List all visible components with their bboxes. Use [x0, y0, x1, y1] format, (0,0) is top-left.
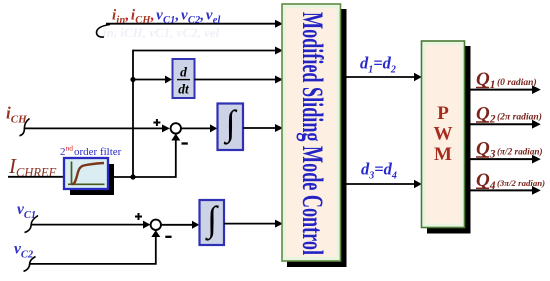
- wire: Q3 output: [468, 158, 532, 160]
- block integrator 1: [218, 103, 244, 150]
- block PWM: [422, 41, 471, 234]
- wire: upper branch to MSMC (y=50): [133, 50, 275, 52]
- svg-text:W: W: [434, 124, 453, 145]
- svg-text:d: d: [180, 65, 187, 80]
- wire: d3=d4 from MSMC to PWM: [347, 183, 415, 185]
- wire: Q1 output: [468, 89, 532, 91]
- svg-text:M: M: [434, 144, 452, 165]
- svg-text:d1=d2: d1=d2: [360, 54, 396, 76]
- summing junction 1: [153, 119, 187, 144]
- wire: integrator 1 output to MSMC: [243, 127, 275, 129]
- wire: i_CH into summing junction 1: [20, 119, 30, 136]
- wire: d/dt output to MSMC: [195, 79, 276, 81]
- wire: filter output up into summing junction 1: [108, 140, 176, 177]
- wire: integrator 2 output to MSMC: [224, 223, 275, 225]
- wire: v_C1 into summing junction 2: [25, 216, 39, 233]
- block 2nd order filter: [64, 158, 114, 195]
- block integrator 2: [200, 199, 225, 245]
- block d/dt (derivative): [173, 59, 195, 98]
- wire: branch into d/dt: [133, 79, 165, 81]
- wire: d1=d2 from MSMC to PWM: [347, 76, 415, 78]
- svg-text:P: P: [437, 103, 449, 124]
- wire: top measurement bus into MSMC: [97, 24, 276, 37]
- svg-text:d3=d4: d3=d4: [361, 160, 397, 182]
- wire: v_C2 up into summing junction 2: [24, 257, 36, 272]
- junction dot at (133,177): [130, 174, 135, 179]
- svg-text:in, iCH, vC1, vC2, vel: in, iCH, vC1, vC2, vel: [103, 25, 220, 40]
- block MSMC: Modified Sliding Mode Control: [282, 4, 347, 267]
- wire: I_CHREF into filter: [8, 176, 64, 178]
- svg-text:Modified Sliding Mode Control: Modified Sliding Mode Control: [296, 12, 329, 255]
- svg-text:dt: dt: [178, 82, 190, 97]
- summing junction 2: [135, 213, 172, 237]
- wire: summing junction 1 to integrator 1: [181, 127, 210, 129]
- wire: Q4 output: [468, 189, 532, 191]
- wire: summing junction 2 to integrator 2: [161, 224, 192, 226]
- wire: Q2 output: [468, 123, 532, 125]
- junction dot at (133,79.5): [130, 77, 135, 82]
- wire: vertical branch x=133: [132, 50, 134, 177]
